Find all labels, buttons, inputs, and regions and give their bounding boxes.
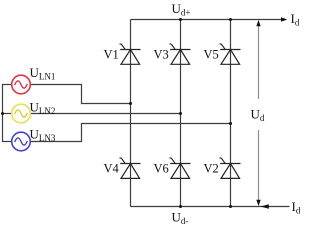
svg-text:V4: V4	[104, 162, 120, 176]
source ULN3	[12, 132, 31, 151]
node phase3 / leg V5	[229, 122, 232, 125]
thyristor V4	[120, 158, 141, 178]
wire leg V3/V6	[180, 20, 182, 207]
svg-text:V3: V3	[154, 48, 169, 62]
node top rail / V3	[179, 18, 182, 21]
svg-text:V5: V5	[204, 48, 219, 62]
wire phase 1 left	[2, 84, 12, 86]
wire top rail U_d+	[131, 19, 284, 21]
arrow Id top	[281, 17, 287, 21]
wire leg V1/V4	[130, 20, 132, 207]
thyristor V2	[220, 158, 241, 178]
thyristor V3	[170, 44, 191, 64]
wire bottom rail U_d-	[131, 206, 290, 208]
svg-text:V1: V1	[104, 48, 119, 62]
svg-text:V2: V2	[204, 162, 219, 176]
wire phase 2 to bridge	[30, 113, 180, 115]
voltage arrow Ud	[256, 20, 260, 206]
wire phase 3 left	[2, 141, 12, 143]
node top rail / V5	[229, 18, 232, 21]
thyristor V6	[170, 158, 191, 178]
node bottom rail / V3	[179, 205, 182, 208]
thyristor V1	[120, 44, 141, 64]
arrow Id bottom	[261, 204, 269, 208]
wire phase 1 to bridge	[30, 85, 130, 104]
wire phase 3 to bridge	[30, 124, 230, 142]
node phase2 / leg V3	[179, 112, 182, 115]
node bottom rail / V5	[229, 205, 232, 208]
thyristor V5	[220, 44, 241, 64]
wire neutral bus	[2, 85, 4, 142]
wire phase 2 left	[2, 113, 12, 115]
source ULN2	[12, 104, 31, 123]
source ULN1	[12, 75, 31, 94]
wire leg V5/V2	[230, 20, 232, 207]
node neutral	[1, 112, 4, 115]
svg-text:V6: V6	[154, 162, 169, 176]
node phase1 / leg V1	[129, 102, 132, 105]
